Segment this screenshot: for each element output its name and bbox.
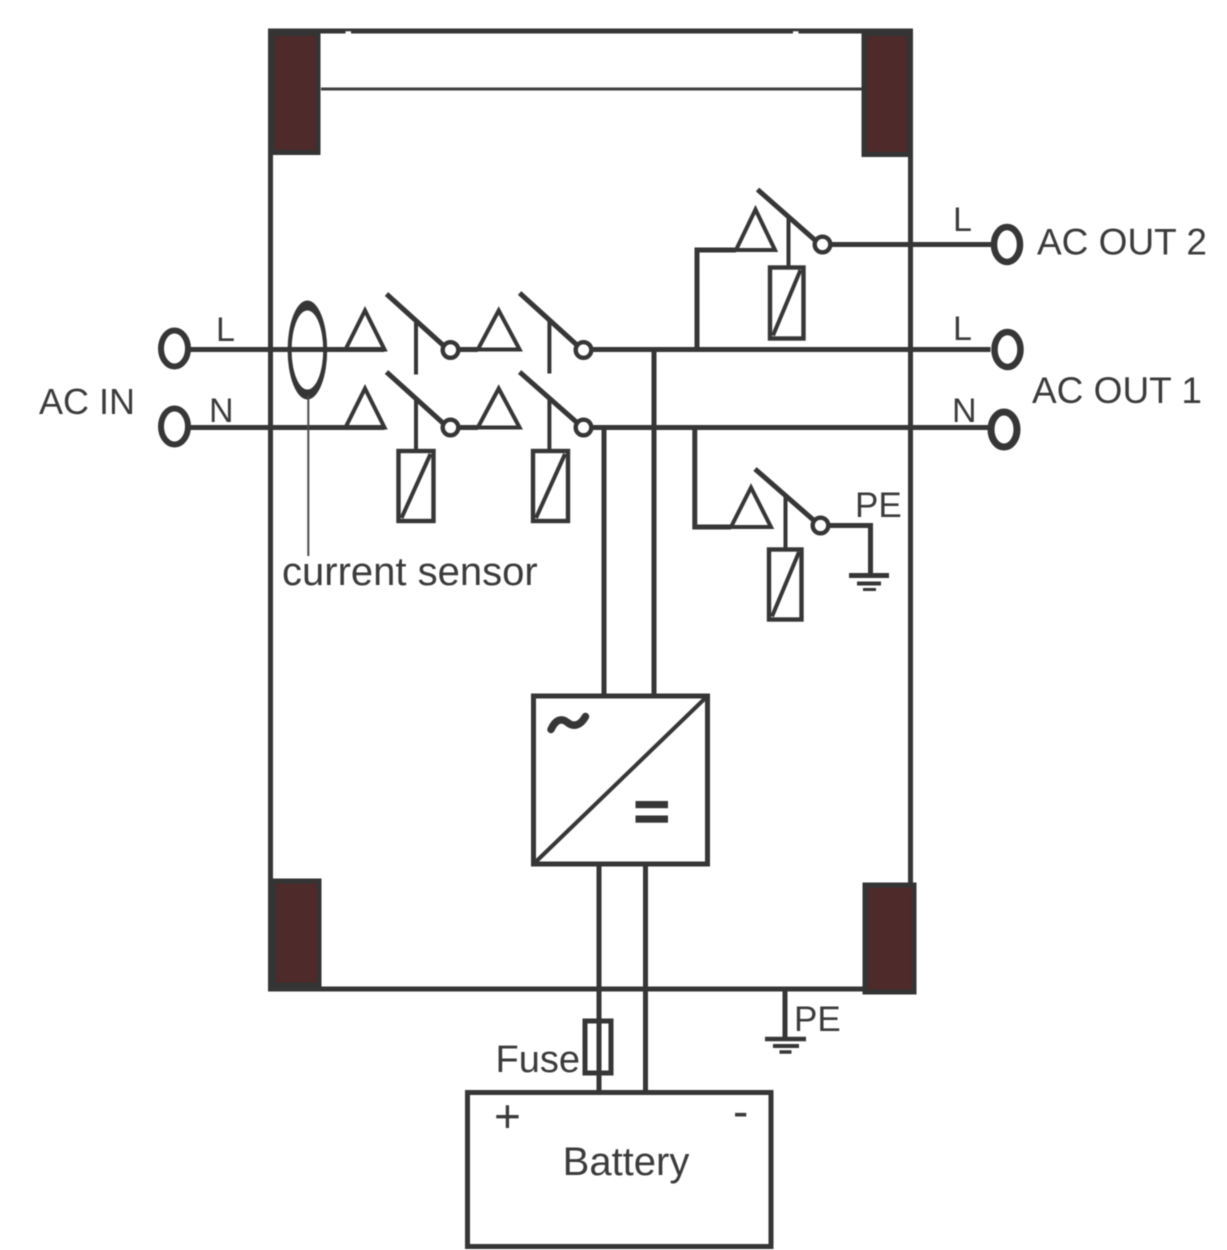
svg-text:AC OUT 1: AC OUT 1 bbox=[1032, 370, 1202, 411]
ground symbol (bottom PE) bbox=[765, 1039, 806, 1052]
relay K1a blade bbox=[387, 294, 445, 346]
svg-text:PE: PE bbox=[855, 486, 902, 525]
label Fuse bbox=[496, 1039, 580, 1081]
svg-text:L: L bbox=[953, 310, 972, 348]
label PE (relay) bbox=[855, 486, 902, 525]
corner post top-right bbox=[864, 34, 909, 155]
AC OUT 1 terminal N bbox=[991, 412, 1017, 447]
AC IN terminal L bbox=[161, 331, 188, 367]
arrester triangle K4 bbox=[731, 488, 771, 528]
label L (AC OUT 2) bbox=[953, 201, 972, 239]
corner post top-left bbox=[272, 34, 318, 153]
ground symbol (PE relay) bbox=[849, 576, 889, 590]
relay K1b contact bbox=[443, 420, 459, 436]
relay K2a link bbox=[547, 320, 551, 374]
relay K3 contact bbox=[815, 237, 831, 253]
top border notch left bbox=[346, 31, 352, 35]
label AC IN bbox=[39, 381, 135, 422]
wire AC OUT 2 bbox=[831, 242, 993, 247]
relay K1a contact bbox=[443, 342, 459, 358]
label AC OUT 2 bbox=[1037, 222, 1207, 263]
relay K2b blade bbox=[520, 372, 578, 423]
relay K4 blade bbox=[755, 469, 814, 521]
top border notch right bbox=[793, 31, 799, 35]
relay K2 coil bbox=[533, 451, 568, 521]
AC IN terminal N bbox=[161, 409, 188, 445]
current sensor lead line bbox=[307, 396, 309, 556]
wire L bus bbox=[592, 347, 991, 352]
AC OUT 1 terminal L bbox=[995, 332, 1021, 367]
label PE (bottom) bbox=[794, 1000, 841, 1039]
svg-text:L: L bbox=[216, 311, 235, 349]
svg-text:AC OUT 2: AC OUT 2 bbox=[1037, 222, 1207, 263]
relay K1a link bbox=[414, 320, 418, 375]
relay K1b link bbox=[414, 399, 418, 451]
svg-text:Fuse: Fuse bbox=[496, 1039, 580, 1081]
svg-text:N: N bbox=[209, 392, 234, 430]
fuse F1 bbox=[585, 1021, 611, 1073]
svg-text:-: - bbox=[733, 1085, 748, 1137]
relay K3 blade bbox=[758, 190, 817, 242]
relay K4 coil bbox=[769, 550, 802, 620]
relay K4 link bbox=[784, 498, 788, 550]
relay K3 link bbox=[787, 217, 791, 268]
label L (AC IN) bbox=[216, 311, 235, 349]
label current sensor bbox=[282, 550, 538, 594]
label plus bbox=[494, 1090, 521, 1142]
arrester triangle K1a bbox=[346, 311, 385, 350]
relay K1 coil bbox=[399, 451, 434, 521]
svg-text:current sensor: current sensor bbox=[282, 550, 538, 594]
wire stub N mid bbox=[459, 425, 479, 430]
relay K2a blade bbox=[520, 293, 578, 346]
arrester triangle K1b bbox=[346, 389, 385, 428]
arrester triangle K2a bbox=[478, 311, 520, 350]
enclosure frame bbox=[271, 31, 911, 989]
current sensor CT ring bbox=[290, 306, 326, 395]
inverter U1 box bbox=[534, 696, 708, 864]
wire L input bbox=[190, 347, 385, 352]
wire PE bottom tick bbox=[783, 987, 788, 1037]
battery box bbox=[468, 1093, 772, 1247]
relay K1b blade bbox=[387, 372, 445, 424]
svg-text:AC IN: AC IN bbox=[39, 381, 135, 422]
wire stub L mid bbox=[459, 347, 479, 352]
wire N bus bbox=[592, 425, 989, 430]
svg-text:Battery: Battery bbox=[563, 1140, 690, 1184]
relay K3 coil bbox=[770, 268, 804, 339]
corner post bottom-right bbox=[865, 885, 914, 992]
corner post bottom-left bbox=[273, 881, 319, 985]
AC OUT 2 terminal L bbox=[994, 227, 1020, 262]
label AC OUT 1 bbox=[1032, 370, 1202, 411]
svg-text:+: + bbox=[494, 1090, 521, 1142]
label minus bbox=[733, 1085, 748, 1137]
wire N input bbox=[190, 425, 385, 430]
label N (AC IN) bbox=[209, 392, 234, 430]
relay K2b contact bbox=[576, 420, 592, 436]
wire N to inverter bbox=[602, 428, 607, 697]
arrester triangle K3 bbox=[736, 210, 775, 251]
relay K2b link bbox=[547, 399, 551, 451]
inverter DC bars bbox=[636, 801, 669, 823]
svg-text:PE: PE bbox=[794, 1000, 841, 1039]
relay K4 contact bbox=[813, 518, 829, 534]
label N (AC OUT 1) bbox=[952, 392, 977, 430]
wire battery plus bbox=[597, 864, 602, 1093]
arrester triangle K2b bbox=[478, 389, 520, 428]
wire branch to AC OUT 2 relay bbox=[697, 250, 736, 350]
svg-text:L: L bbox=[953, 201, 972, 239]
label Battery bbox=[563, 1140, 690, 1184]
inner top rail line bbox=[321, 88, 881, 91]
wire L to inverter bbox=[652, 350, 657, 697]
wire PE relay to ground bbox=[829, 526, 871, 575]
relay K2a contact bbox=[576, 342, 592, 358]
svg-text:N: N bbox=[952, 392, 977, 430]
inverter AC tilde bbox=[551, 717, 586, 730]
label L (AC OUT 1) bbox=[953, 310, 972, 348]
wire branch to PE relay bbox=[695, 428, 731, 528]
wire battery minus bbox=[643, 864, 648, 1093]
